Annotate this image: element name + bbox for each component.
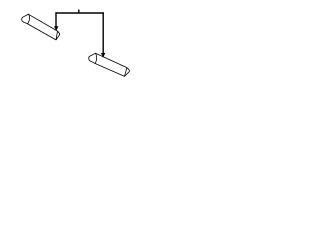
rod right: bottom edge [95, 64, 124, 77]
wire: left vertical drop [55, 13, 57, 27]
rod right: near cap [89, 53, 97, 63]
rod left: near cap [22, 14, 30, 24]
arrowhead right [101, 53, 105, 57]
rod right: top edge [96, 53, 127, 67]
rod left: far cap [56, 31, 60, 39]
rod left: bottom edge [28, 24, 56, 40]
rod left: top edge [29, 14, 58, 31]
wire: center tick [78, 10, 80, 13]
arrowhead left [55, 27, 59, 31]
wire: right vertical drop [102, 13, 104, 53]
rod right: far cap [125, 68, 130, 76]
diagram: two 3D rods with leader arrows [0, 0, 150, 89]
wire: horizontal leader bar [56, 12, 103, 14]
